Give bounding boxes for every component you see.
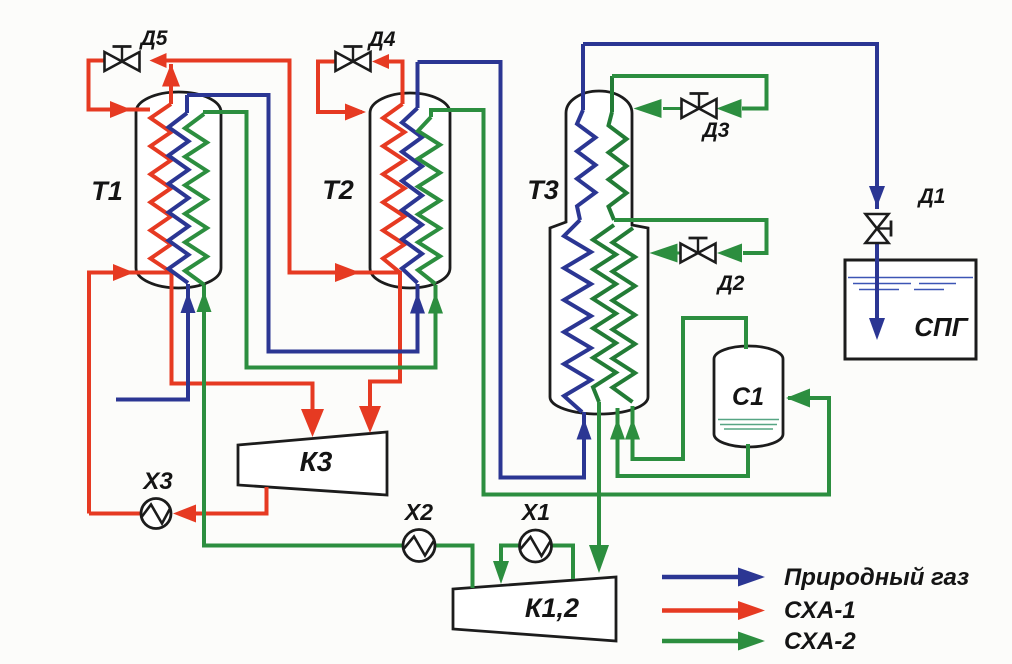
wire: green K1,2 discharge to cooler X2 bbox=[436, 546, 473, 589]
arrow up into T1 bottom (blue) bbox=[181, 292, 196, 313]
wire: blue T1 top to T2 bottom bbox=[187, 95, 418, 352]
label Д5 bbox=[139, 27, 168, 50]
label Х2 bbox=[403, 499, 433, 525]
arrow down into K1,2 from X1 (green) bbox=[493, 561, 509, 584]
heat exchanger T2 (vessel) bbox=[370, 93, 450, 288]
svg-text:Д4: Д4 bbox=[367, 28, 396, 51]
arrow into T1 upper left (red) bbox=[110, 101, 131, 118]
svg-text:К3: К3 bbox=[300, 446, 333, 477]
legend label СХА-1 bbox=[784, 597, 856, 624]
arrow up into T2 bottom (green) bbox=[428, 293, 443, 314]
svg-text:С1: С1 bbox=[732, 383, 764, 411]
arrow left into X3 (red) bbox=[173, 505, 196, 523]
wire: green Д2 loop bbox=[614, 220, 767, 253]
label Х3 bbox=[141, 468, 173, 495]
arrow left into T3 at Д2 (green) bbox=[650, 244, 678, 263]
coil: green lower zigzag A in T3 bbox=[593, 225, 616, 402]
wire: red K3 discharge to cooler X3 bbox=[196, 487, 267, 514]
arrow down into K1,2 (green, thick) bbox=[589, 545, 609, 573]
label Х1 bbox=[520, 499, 550, 525]
arrow left into C1 (green) bbox=[786, 389, 810, 408]
compressor K3 (trapezoid) bbox=[238, 432, 387, 495]
separator C1 liquid level lines bbox=[718, 420, 779, 430]
svg-text:Т2: Т2 bbox=[322, 175, 354, 205]
svg-text:СХА-1: СХА-1 bbox=[784, 597, 856, 624]
label T2 bbox=[322, 175, 354, 205]
arrow down into K3 from T2 (red) bbox=[359, 406, 381, 433]
cooler X2 (circle) bbox=[403, 530, 435, 562]
coil: blue zigzag in T2 bbox=[402, 62, 422, 283]
legend natural gas arrow (blue) bbox=[662, 568, 765, 587]
svg-text:Т1: Т1 bbox=[91, 176, 123, 206]
arrow up into T3 bottom (blue) bbox=[577, 419, 592, 440]
coil: green zigzag in T1 bbox=[185, 114, 207, 285]
wire: green X2 outlet to T1 bottom bbox=[204, 285, 403, 546]
svg-text:К1,2: К1,2 bbox=[525, 593, 579, 623]
wire: red T2 coil bottom to compressor K3 bbox=[370, 271, 400, 428]
legend label СХА-2 bbox=[784, 628, 856, 655]
wire: red T1 coil bottom to compressor K3 bbox=[172, 271, 313, 431]
wire: red top header T1 to T2 lower entry bbox=[164, 61, 399, 273]
wire: blue Д1 to LNG tank bbox=[875, 243, 879, 322]
wire: green X1 outlet into K2 bbox=[501, 546, 519, 563]
arrow up into T3 bottom right (green) bbox=[625, 419, 640, 440]
compressor K1,2 (trapezoid) bbox=[453, 577, 616, 641]
valve Д1 (vertical) bbox=[866, 214, 892, 243]
svg-text:Д3: Д3 bbox=[701, 119, 730, 142]
arrow up from T1 top (red) bbox=[162, 64, 180, 87]
wire: green C1 liquid loop to T3 bottom bbox=[618, 408, 749, 476]
arrow left into valve Д5 (red) bbox=[150, 53, 167, 68]
wire: red T2 coil top exit to Д4 bbox=[389, 62, 403, 105]
arrow up into T1 bottom (green) bbox=[197, 291, 212, 312]
label К1,2 bbox=[525, 593, 579, 623]
coil: blue zigzag in T1 bbox=[169, 95, 189, 283]
label К3 bbox=[300, 446, 333, 477]
wire: green T1 top to T2 bottom bbox=[203, 112, 436, 368]
coil: red zigzag in T1 bbox=[151, 104, 172, 273]
arrow left into T3 at Д3 (green) bbox=[634, 99, 662, 118]
label Д4 bbox=[367, 28, 396, 51]
wire: red X3 inlet connector bbox=[89, 512, 150, 516]
cooler X1 (circle) bbox=[520, 530, 552, 562]
label СПГ bbox=[914, 312, 968, 342]
svg-text:Д2: Д2 bbox=[716, 272, 745, 295]
arrow left before Д3 (green) bbox=[717, 99, 742, 118]
arrow down inside tank (blue) bbox=[869, 318, 885, 340]
svg-text:Т3: Т3 bbox=[527, 175, 559, 205]
coil: blue zigzag in T3 bbox=[564, 44, 596, 412]
svg-text:Х3: Х3 bbox=[141, 468, 173, 495]
valve Д4 bbox=[336, 47, 371, 72]
wire: green T2 top to separator C1 bbox=[431, 110, 829, 495]
wire: blue natural gas feed into T1 bottom bbox=[116, 284, 188, 400]
svg-text:Природный газ: Природный газ bbox=[784, 564, 969, 591]
svg-text:Х1: Х1 bbox=[520, 499, 550, 525]
wire: green K1 interstage to X1 bbox=[553, 546, 574, 580]
svg-text:Х2: Х2 bbox=[403, 499, 433, 525]
arrow left into valve Д4 (red) bbox=[372, 54, 389, 69]
arrow up into T3 bottom left (green) bbox=[610, 419, 625, 440]
wire: red Д4 bypass left leg into T2 top bbox=[318, 62, 362, 113]
label С1 bbox=[732, 383, 764, 411]
wire: green T3 bottom return to K1,2 bbox=[597, 402, 601, 548]
arrow into T2 upper left (red) bbox=[345, 104, 366, 121]
coil: green lower zigzag B in T3 bbox=[613, 228, 636, 402]
arrow into T1 lower left (red) bbox=[113, 264, 134, 281]
svg-text:Д1: Д1 bbox=[917, 185, 946, 208]
arrow up into T2 bottom (blue) bbox=[410, 293, 425, 314]
coil: red zigzag in T2 bbox=[383, 104, 405, 273]
svg-text:СХА-2: СХА-2 bbox=[784, 628, 856, 655]
svg-text:СПГ: СПГ bbox=[914, 312, 968, 342]
wire: blue T3 top header to valve Д1 bbox=[583, 44, 877, 209]
tank liquid level lines bbox=[848, 278, 973, 290]
label T1 bbox=[91, 176, 123, 206]
valve Д3 bbox=[682, 94, 717, 119]
label Д2 bbox=[716, 272, 745, 295]
svg-text:Д5: Д5 bbox=[139, 27, 168, 50]
label T3 bbox=[527, 175, 559, 205]
heat exchanger T3 (two-section vessel) bbox=[550, 91, 648, 414]
label Д1 bbox=[917, 185, 946, 208]
wire: green Д3 loop bbox=[612, 76, 767, 109]
legend СХА-1 arrow (red) bbox=[662, 601, 765, 620]
coil: green zigzag in T2 bbox=[418, 117, 440, 284]
heat exchanger T1 (vessel) bbox=[136, 92, 221, 288]
arrow down above Д1 (blue) bbox=[869, 186, 885, 207]
arrow into T2 lower left (red) bbox=[335, 263, 360, 282]
legend СХА-2 arrow (green) bbox=[662, 632, 765, 651]
valve Д5 bbox=[105, 47, 140, 72]
legend label Природный газ bbox=[784, 564, 969, 591]
wire: red Д5 bypass left leg into T1 top bbox=[89, 61, 151, 110]
separator C1 (vessel) bbox=[714, 346, 783, 447]
coil: green upper zigzag in T3 bbox=[609, 76, 627, 220]
wire: red X3 outlet up to T1 lower entry bbox=[89, 273, 170, 514]
LNG storage tank СПГ bbox=[845, 260, 976, 359]
wire: blue T2 top to T3 bottom bbox=[418, 62, 585, 478]
valve Д2 bbox=[681, 238, 716, 263]
arrow left before Д2 (green) bbox=[717, 244, 742, 263]
label Д3 bbox=[701, 119, 730, 142]
arrow down into K3 from T1 (red) bbox=[301, 409, 324, 437]
cooler X3 (circle) bbox=[141, 499, 171, 529]
wire: green C1 vapor loop to T3 bottom bbox=[633, 318, 747, 459]
wire: red T1 coil top exit bbox=[169, 64, 173, 104]
